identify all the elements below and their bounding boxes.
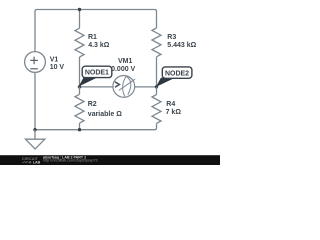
- svg-text:NODE2: NODE2: [165, 70, 189, 77]
- svg-text:0.000 V: 0.000 V: [111, 66, 135, 73]
- svg-text:R3: R3: [167, 34, 176, 41]
- junction node2: [155, 85, 158, 88]
- svg-text:VM1: VM1: [118, 58, 133, 65]
- junction node1: [78, 85, 81, 88]
- wire voltmeter right: [135, 86, 157, 88]
- svg-text:7 kΩ: 7 kΩ: [166, 109, 182, 116]
- svg-text:5.443 kΩ: 5.443 kΩ: [167, 42, 196, 49]
- voltmeter VM1: [113, 76, 135, 98]
- node NODE1 flag: [79, 66, 112, 86]
- wire R1 to NODE1: [79, 57, 81, 87]
- junction ground: [33, 128, 36, 131]
- svg-text:V1: V1: [50, 56, 59, 63]
- resistor R2: [75, 94, 84, 123]
- CircuitLab logo: [22, 157, 41, 165]
- wire R1 top lead: [79, 10, 81, 29]
- wire R2 bottom lead: [79, 123, 81, 130]
- svg-text:10 V: 10 V: [50, 64, 65, 71]
- wire bottom rail: [35, 73, 157, 130]
- ground: [26, 130, 45, 149]
- svg-text:R1: R1: [88, 34, 97, 41]
- wire R2 top lead: [79, 87, 81, 94]
- resistor R4: [152, 95, 161, 124]
- svg-text:variable Ω: variable Ω: [88, 111, 122, 118]
- svg-text:NODE1: NODE1: [85, 70, 109, 77]
- svg-text:http://circuitlab.com/c6qd3rps: http://circuitlab.com/c6qd3rpsvp73: [43, 159, 98, 163]
- wire R4 top lead: [156, 87, 158, 95]
- wire top rail: [35, 10, 157, 52]
- node NODE2 flag: [156, 67, 192, 87]
- attribution bar: [0, 155, 220, 165]
- svg-text:LAB: LAB: [33, 161, 41, 165]
- svg-text:R4: R4: [166, 101, 175, 108]
- svg-text:R2: R2: [88, 101, 97, 108]
- wire R3 to NODE2: [156, 57, 158, 87]
- voltage source V1: [25, 52, 46, 73]
- junction bottom: [78, 128, 81, 131]
- svg-text:4.3 kΩ: 4.3 kΩ: [88, 42, 110, 49]
- resistor R1: [75, 28, 84, 57]
- resistor R3: [152, 28, 161, 57]
- wire voltmeter left: [80, 86, 113, 88]
- wire R4 bottom lead: [156, 123, 158, 124]
- junction top: [78, 8, 81, 11]
